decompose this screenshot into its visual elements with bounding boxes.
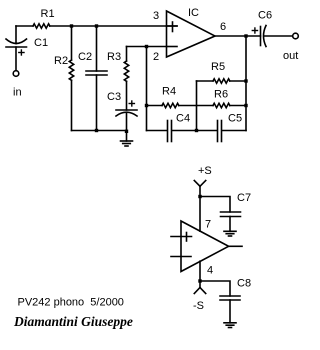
svg-text:Diamantini Giuseppe: Diamantini Giuseppe [13, 314, 133, 329]
svg-text:PV242 phono 5/2000: PV242 phono 5/2000 [18, 297, 124, 309]
capacitor C2 [86, 26, 107, 131]
junction [198, 279, 201, 282]
op-amp U1 [167, 11, 216, 57]
capacitor C1 [6, 26, 27, 55]
junction [145, 104, 148, 107]
capacitor C8 [220, 296, 240, 300]
wire [229, 217, 231, 232]
resistor R1 [33, 24, 50, 28]
wire [16, 25, 33, 27]
wire [15, 47, 17, 71]
supply +S [194, 181, 205, 197]
output jack terminal [293, 33, 299, 39]
svg-text:C6: C6 [258, 10, 272, 22]
svg-text:R5: R5 [211, 61, 225, 73]
input jack terminal [13, 71, 19, 77]
svg-text:2: 2 [153, 51, 159, 63]
svg-text:C3: C3 [107, 91, 121, 103]
junction [95, 24, 98, 27]
supply -S [194, 281, 205, 294]
resistor R3 [124, 47, 128, 111]
svg-text:R3: R3 [107, 51, 121, 63]
capacitor C4 [168, 121, 172, 142]
svg-text:in: in [13, 87, 22, 99]
svg-text:R4: R4 [162, 86, 176, 98]
svg-text:out: out [283, 50, 298, 62]
wire [264, 35, 293, 37]
junction [145, 45, 148, 48]
svg-text:4: 4 [207, 265, 213, 277]
junction [195, 129, 198, 132]
svg-text:7: 7 [205, 219, 211, 231]
ground [121, 132, 133, 146]
wire [172, 130, 217, 132]
wire [199, 197, 201, 232]
wire [196, 81, 198, 131]
wire [245, 36, 247, 131]
wire [146, 47, 148, 131]
svg-text:C4: C4 [176, 113, 190, 125]
svg-text:R6: R6 [214, 89, 228, 101]
svg-text:R2: R2 [54, 55, 68, 67]
capacitor C6 [252, 26, 266, 47]
svg-text:IC: IC [188, 7, 199, 19]
svg-text:+S: +S [198, 165, 212, 177]
capacitor C7 [221, 212, 241, 217]
resistor R2 [69, 26, 73, 131]
capacitor C5 [218, 121, 222, 142]
svg-text:R1: R1 [41, 8, 55, 20]
svg-text:C5: C5 [228, 113, 242, 125]
wire [215, 35, 261, 37]
junction [244, 34, 247, 37]
resistor R4 [147, 103, 197, 107]
capacitor C3 [116, 101, 137, 131]
wire [222, 130, 246, 132]
op-amp U2 [171, 221, 242, 272]
svg-text:C2: C2 [78, 51, 92, 63]
junction [198, 195, 201, 198]
wire [147, 130, 168, 132]
junction [70, 24, 73, 27]
svg-text:C8: C8 [237, 278, 251, 290]
svg-text:6: 6 [220, 21, 226, 33]
svg-text:-S: -S [193, 300, 204, 312]
ground [224, 323, 236, 328]
junction [95, 129, 98, 132]
svg-text:C1: C1 [34, 37, 48, 49]
junction [244, 104, 247, 107]
ground [224, 231, 236, 236]
wire [50, 25, 177, 27]
resistor R6 [197, 103, 247, 107]
wire [127, 46, 167, 48]
wire [200, 281, 230, 296]
junction [244, 79, 247, 82]
svg-text:C7: C7 [237, 192, 251, 204]
wire [72, 130, 127, 132]
svg-text:3: 3 [153, 10, 159, 22]
junction [125, 130, 128, 133]
wire [199, 261, 201, 281]
wire [200, 197, 230, 213]
wire [229, 300, 231, 323]
resistor R5 [197, 79, 247, 83]
